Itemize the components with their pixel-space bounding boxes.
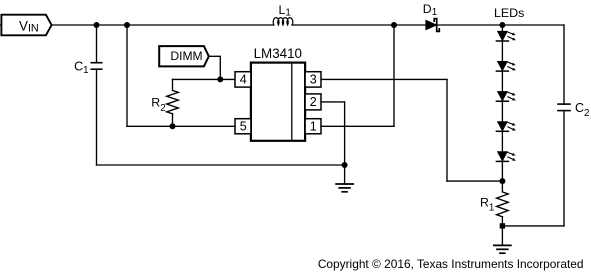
wire LED string	[501, 25, 503, 181]
wire pin 1 row	[321, 125, 394, 127]
svg-text:3: 3	[310, 73, 317, 87]
junction C1 tap	[94, 22, 100, 28]
wire switch node drop	[393, 25, 395, 126]
junction ground node	[342, 162, 348, 168]
wire R1 to C2 bottom	[502, 225, 564, 227]
pin 5	[235, 119, 251, 134]
pin 3	[305, 72, 321, 87]
wire top rail D1 to C2	[438, 24, 565, 26]
svg-text:LEDs: LEDs	[494, 6, 524, 20]
svg-text:DIMM: DIMM	[170, 49, 202, 63]
wire top rail L1 to D1	[292, 24, 426, 26]
pin 1	[305, 119, 321, 134]
diode D1	[423, 2, 440, 31]
junction VIN branch tap	[124, 22, 130, 28]
wire pin 2 row	[321, 101, 345, 103]
LED 3	[496, 92, 516, 102]
LED 4	[496, 122, 516, 132]
svg-text:R1: R1	[480, 195, 494, 213]
wire C2 top lead	[563, 25, 565, 104]
wire pin 3 drop	[446, 79, 448, 181]
svg-text:LM3410: LM3410	[254, 46, 302, 61]
wire ground stem	[344, 165, 346, 184]
junction LED string top	[499, 22, 505, 28]
svg-text:1: 1	[310, 119, 317, 133]
wire ground stem 2	[501, 226, 503, 246]
LED 2	[496, 61, 516, 71]
pin 2	[305, 94, 321, 110]
net flag VIN	[1, 15, 51, 36]
junction LED string bottom	[499, 178, 505, 184]
op-amp U1 LM3410 body	[251, 46, 305, 141]
junction DIMM tap	[217, 76, 223, 82]
svg-text:Copyright © 2016, Texas Instru: Copyright © 2016, Texas Instruments Inco…	[318, 257, 584, 271]
resistor R1	[480, 181, 508, 226]
ground	[494, 245, 511, 253]
resistor R2	[151, 79, 178, 126]
inductor L1	[273, 3, 293, 25]
wire pin 4 row	[173, 78, 236, 80]
svg-text:D1: D1	[423, 2, 437, 18]
LED 5	[496, 152, 516, 162]
ground	[336, 184, 353, 192]
wire C1 top lead	[96, 25, 98, 63]
svg-text:2: 2	[310, 95, 317, 109]
svg-text:L1: L1	[279, 3, 291, 19]
wire ground rail	[97, 164, 345, 166]
svg-text:R2: R2	[151, 96, 165, 114]
svg-text:C1: C1	[74, 60, 88, 76]
junction R1 bottom	[500, 223, 505, 228]
net flag DIMM	[159, 46, 209, 66]
svg-text:C2: C2	[575, 101, 589, 119]
wire pin 3 row	[321, 78, 447, 80]
junction R2 bottom	[170, 123, 176, 129]
wire DIMM to pin 4 row	[209, 56, 221, 79]
wire pin 2 drop	[344, 102, 346, 165]
wire top rail VIN to L1	[52, 24, 274, 26]
wire pin 5 row	[127, 125, 235, 127]
capacitor C1	[74, 60, 102, 76]
svg-text:4: 4	[240, 73, 247, 87]
wire input stub	[0, 24, 2, 26]
LED 1	[496, 31, 516, 41]
wire VIN branch to pin 5 row	[126, 25, 128, 126]
svg-text:5: 5	[240, 119, 247, 133]
wire C2 bottom lead	[563, 111, 565, 226]
wire pin 3 to LED return	[447, 180, 502, 182]
wire C1 bottom lead	[96, 69, 98, 165]
capacitor C2	[558, 101, 589, 119]
pin 4	[235, 72, 251, 87]
junction switch node	[391, 22, 397, 28]
